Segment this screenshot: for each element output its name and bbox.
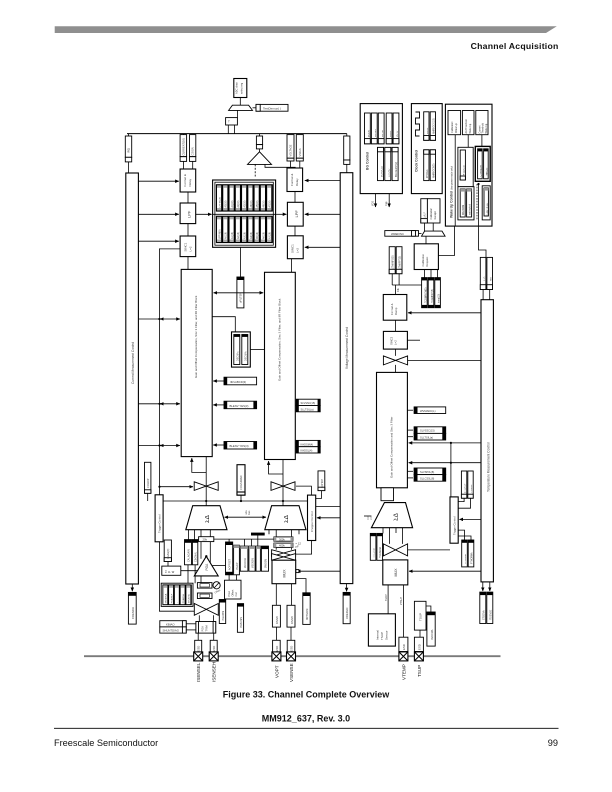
ground rail [84,655,501,657]
pad TSUP [414,652,423,661]
MUX (temperature) [383,560,408,585]
analog rail wire [214,538,274,540]
svg-text:BLENV YES(3): BLENV YES(3) [230,404,249,408]
LTM register pair [389,247,395,274]
wire TSUP to PGAINM [426,606,431,612]
svg-text:VTEMP: VTEMP [402,664,407,680]
mux trapezoid [229,105,253,110]
sigma delta output stubs [382,528,384,534]
svg-text:MPTERM: MPTERM [305,609,309,620]
wake macro box [458,187,474,220]
svg-text:Damp: Damp [394,307,398,315]
temp side registers B [407,470,413,472]
chopper switch (current) [194,482,206,491]
svg-text:CTHRESH: CTHRESH [480,165,482,176]
svg-text:RTZIAG: RTZIAG [426,169,429,178]
calibration receipt box [427,199,440,223]
arrow wires from voltage bar [305,180,340,182]
BG trim register column group [365,113,399,144]
svg-text:Channel Acquisition: Channel Acquisition [471,41,559,51]
svg-text:Σ u. w: Σ u. w [165,570,175,574]
chopper switch (temperature) [383,356,395,365]
long vertical control wire [159,249,194,611]
TSUP register [414,601,426,630]
svg-text:MUX: MUX [394,568,398,577]
RGS resistor [274,543,293,547]
BG calibration register group [378,147,399,180]
LALF register [421,199,428,223]
svg-text:ΣΔ: ΣΔ [205,515,211,523]
svg-text:VTSUP: VTSUP [400,597,403,605]
svg-text:300k: 300k [279,537,285,541]
svg-text:TSUP: TSUP [380,632,384,640]
wires calreq to TCOMP [423,270,425,278]
ETSENA register [480,592,486,623]
svg-text:ADC chan: ADC chan [235,82,239,94]
svg-text:ESD: ESD [418,644,422,650]
gain block 1 output loop [205,457,207,506]
svg-text:A1(16): A1(16) [231,232,234,239]
pad VTEMP [399,652,408,661]
wake compare box left [458,147,473,186]
svg-text:TEMP: TEMP [385,594,388,601]
TSGSEM register pair [370,533,376,560]
VSIGN register [296,135,303,159]
svg-text:PTHORMA: PTHORMA [471,552,474,564]
svg-text:A6(16): A6(16) [262,232,265,239]
PGAINM register [427,612,435,646]
svg-text:CBGNAL: CBGNAL [195,551,198,562]
wires below LTM [391,274,393,285]
svg-text:Gain and Offset Compensation,: Gain and Offset Compensation, Sinc 3 Fil… [194,295,198,378]
SHUNTDIAG register [160,627,186,633]
svg-text:TCMPTB DL: TCMPTB DL [487,202,489,216]
pad VOPT [272,652,281,661]
svg-text:VOLTAGE: VOLTAGE [289,144,293,156]
svg-text:KHDSM(4): KHDSM(4) [301,442,314,446]
ESD ISENSEH [213,633,215,640]
ITSENSE register [487,592,493,623]
ESD VTEMP [399,637,408,651]
gain sum box [162,566,181,575]
svg-text:ESD: ESD [212,646,216,652]
CALAGAIN register [185,540,192,565]
current measurement control bar [126,173,139,584]
svg-text:ESD: ESD [402,644,406,650]
svg-text:ESD: ESD [290,646,294,652]
svg-text:temp(10): temp(10) [438,294,441,303]
wake threshold box right [475,146,490,181]
svg-text:VADCOA: VADCOA [244,558,247,568]
calibration request box [414,244,438,270]
PGA amplifier [194,556,218,576]
svg-text:BGRDC(2): BGRDC(2) [381,166,383,177]
mux outputs [387,585,389,614]
svg-text:VDD: VDD [372,201,375,206]
svg-text:Delay: Delay [188,178,192,186]
wire into switch [160,486,194,488]
svg-text:KHDSL(4): KHDSL(4) [301,449,313,453]
BG Control box [360,104,402,194]
svg-text:A3(16): A3(16) [243,200,246,207]
svg-text:ESD: ESD [197,646,201,652]
STROBE register [240,546,248,571]
svg-text:uFILTER: uFILTER [239,293,243,303]
svg-text:DECIM u: DECIM u [237,351,240,361]
wires at chopper bar [316,506,341,508]
svg-text:MUX: MUX [283,569,287,578]
internal TSUP sensor [368,614,395,646]
wire [294,192,296,203]
trigger control bar (right) [450,497,458,543]
Format and Delay (voltage) [287,168,303,192]
offset cap 2 [197,593,212,599]
svg-text:IRQ: IRQ [126,147,130,153]
svg-text:PGAG(3): PGAG(3) [167,549,170,559]
svg-text:Wake Up: Wake Up [469,123,472,133]
arrow from temperature bar [408,312,481,314]
svg-text:BGSRV: BGSRV [375,129,377,137]
array output wire [240,247,242,277]
svg-text:Cap: Cap [385,201,388,206]
svg-text:44-CDI(13): 44-CDI(13) [463,165,465,177]
wires below CALAGAIN [187,565,189,583]
svg-text:ITCROP: ITCROP [471,484,473,493]
svg-text:STSORM: STSORM [465,554,467,564]
svg-text:Sensor: Sensor [385,630,389,640]
amp offset register [226,542,233,575]
svg-text:Offset: Offset [214,589,221,595]
RVS5 resistor [274,537,293,541]
svg-text:IIRxABCD(3): IIRxABCD(3) [230,380,246,384]
svg-text:LALF: LALF [424,212,427,218]
LPF (current) [180,203,196,224]
SINC1 (current) [180,236,196,257]
svg-text:A5(16): A5(16) [256,232,259,239]
clock waveform [416,112,420,136]
svg-text:L=2: L=2 [296,248,300,253]
step wire to shared block [212,317,235,332]
control lines into gain block [138,403,180,405]
PGA offset cal box [225,580,242,599]
CBGNAU register [192,540,197,565]
TCOMP registers [422,278,428,308]
wire wake to calibration request [438,226,454,255]
COHOP register [145,462,151,493]
ESD VOPT [273,640,281,653]
Wake Up Control box [445,104,492,226]
wires to mux trapezoid [423,223,425,231]
svg-text:DECIM k: DECIM k [245,351,248,361]
DIV20 (VOPT) [272,605,280,627]
wires below switch [198,615,200,621]
sigma delta output stubs (current) [188,530,190,540]
sigma delta modulator (voltage) [265,506,306,530]
svg-text:A2(16): A2(16) [237,200,240,207]
svg-text:DIV/20: DIV/20 [275,616,279,624]
CURRENT register [182,134,184,135]
svg-text:ESD: ESD [275,646,279,652]
wire [291,259,293,273]
exchange arrow wire [214,292,264,294]
svg-text:Gain and Offset Compensation,: Gain and Offset Compensation, Sinc 3 Fil… [278,298,282,381]
svg-text:Internal: Internal [376,630,380,640]
svg-text:LPFIN(16): LPFIN(16) [219,197,221,208]
clock register group B [424,150,436,181]
svg-text:BLENV YDS(3): BLENV YDS(3) [230,444,249,448]
BLENV register [213,404,224,406]
VETN register [259,134,261,136]
bus bar (dark) [251,533,265,536]
svg-text:ETCROP: ETCROP [465,483,467,493]
svg-text:L=2: L=2 [189,246,193,251]
svg-text:PGAIP: PGAIP [236,562,239,570]
wire [187,192,189,203]
junction dots [158,403,160,405]
svg-text:SINC1: SINC1 [184,242,188,251]
clock register group A [424,112,436,141]
wire [187,224,189,236]
svg-text:COGNDREF: COGNDREF [239,475,243,490]
wire [294,226,296,236]
wires [182,161,184,169]
wire [395,349,397,356]
svg-text:Wake Up: Wake Up [485,123,488,133]
svg-text:AMREGCC(13): AMREGCC(13) [433,118,436,134]
svg-text:Trigger Control: Trigger Control [453,516,457,535]
svg-text:PGAIBM: PGAIBM [222,611,225,621]
MPTERM register [303,593,310,625]
input switch (big) [194,604,206,616]
top register box [234,79,247,98]
SINC3 (temperature) [383,331,407,349]
PGA trim box [196,622,216,634]
VSENSE register [256,546,260,571]
wake timer box [482,186,490,220]
DIV20 (VSENSE) [287,605,295,627]
mux right wires [297,570,340,572]
SINC1 (voltage) [287,236,303,259]
WVMADC register [407,409,413,411]
wire wake to divider [479,226,487,257]
svg-text:Voltage Measurement Control: Voltage Measurement Control [345,327,349,369]
voltage block side registers A [296,399,320,405]
IIR enable register [213,444,224,446]
comparator triangle [259,149,261,152]
Format and Delay (current) [180,169,196,192]
svg-text:LPFIN(A): LPFIN(A) [218,229,221,239]
crossbar switches [272,550,284,557]
svg-text:VOPT: VOPT [275,665,280,678]
ETCROP register pair [461,471,466,498]
COGNDREF register [237,465,245,495]
wire [253,107,257,109]
svg-text:WREFINC: WREFINC [391,232,404,236]
svg-text:DIV/20: DIV/20 [290,616,294,624]
arrow wires from control bar [138,180,178,182]
svg-text:ISENSEH: ISENSEH [212,662,217,682]
wires from bar bottom [482,582,484,591]
svg-text:SLLCS5L(8): SLLCS5L(8) [420,477,434,481]
CRENDA register [131,584,133,591]
svg-text:VSENSE: VSENSE [289,663,294,682]
divider resistors [480,257,486,289]
wire to right trigger bar [408,549,450,551]
input switch (temperature) [383,544,395,556]
ESD ISENSEL [197,633,199,640]
shared coefficient block [232,332,251,367]
VOLTAGE register [287,135,294,159]
svg-text:COHOP: COHOP [146,478,150,488]
svg-text:SLLTSIL(a): SLLTSIL(a) [301,407,314,411]
svg-text:Request: Request [425,257,429,267]
top bus [127,133,347,135]
wires to lower registers [458,530,464,540]
PGA input select row [161,583,193,606]
svg-text:TSUP: TSUP [417,665,422,677]
stubs to rail [228,539,230,542]
wires [186,623,196,625]
chopper circle [213,582,220,589]
svg-text:VREFEN: VREFEN [345,608,349,619]
PGBCMN register [237,604,243,633]
wires to bus [227,125,229,134]
svg-text:MGSENA: MGSENA [165,593,168,603]
svg-text:TCOMPATH(5): TCOMPATH(5) [424,287,427,303]
svg-text:BGRF: BGRF [390,130,392,137]
temperature bus wires [409,442,481,444]
svg-text:SLVSP3L(8): SLVSP3L(8) [420,470,434,474]
temperature measurement control bar [481,300,493,582]
svg-text:Calibration: Calibration [430,207,433,219]
bus right drop to voltage control [346,134,348,136]
svg-text:BG Control: BG Control [366,152,370,170]
svg-text:ETSENA: ETSENA [482,610,485,620]
svg-text:TRIM: TRIM [206,625,209,631]
svg-text:RVADMA: RVADMA [431,629,434,640]
svg-text:A7(16): A7(16) [269,232,272,239]
sigma delta modulator (current) [186,506,227,530]
BWOSSM register [261,546,268,571]
svg-text:PGA: PGA [227,591,231,597]
LPF (voltage) [287,202,303,226]
svg-text:Calibration: Calibration [451,121,454,133]
wire to temperature bar [408,359,481,361]
svg-text:PGA: PGA [202,626,205,632]
wire [395,320,397,331]
Clock Control box [411,104,442,194]
chopper bus wire [163,500,307,502]
svg-text:WVMADC(L): WVMADC(L) [420,409,436,413]
svg-text:PGAINLP: PGAINLP [170,593,173,603]
ana bus exchange wire [225,516,267,518]
svg-text:A4(16): A4(16) [250,232,253,239]
svg-text:Calibration: Calibration [421,254,425,267]
ESD TSUP [414,637,423,651]
wires to ESD [275,627,277,640]
svg-text:anti typical: anti typical [469,204,472,215]
svg-text:select reg: select reg [240,82,244,94]
wires trapezoid to resistors [275,547,277,549]
mux output wires [275,584,277,606]
svg-text:SLVSSC(15): SLVSSC(15) [420,429,435,433]
footer rule [54,727,559,729]
svg-text:A2(16): A2(16) [237,232,240,239]
svg-text:Gain and Offset Compensation a: Gain and Offset Compensation and Sinc 3 … [390,417,394,478]
svg-text:Offset: Offset [231,589,235,596]
svg-text:VSENSM: VSENSM [252,558,255,568]
LPF bus through array [196,213,212,215]
svg-text:EOHOP: EOHOP [321,479,324,488]
pad ISENSEL [194,652,203,661]
svg-text:Wake Up: Wake Up [455,123,458,133]
wire [395,365,397,373]
Format and Damp (temperature) [383,295,407,321]
voltage measurement control bar [340,173,353,584]
svg-text:20k: 20k [203,538,208,542]
svg-text:THCSUM: THCSUM [374,548,376,558]
wire [250,349,264,351]
sigma delta output stubs (voltage) [268,530,270,535]
svg-text:Freescale Semiconductor: Freescale Semiconductor [54,738,158,748]
wire into switch from chopper bar [296,486,311,495]
svg-text:SINC1: SINC1 [291,244,295,253]
wires [290,161,292,168]
pad VSENSE [287,652,296,661]
svg-text:MACRAM: MACRAM [462,205,465,215]
small control box [226,118,238,125]
coefficient register array outer [213,180,276,247]
svg-text:PGBCMN: PGBCMN [240,617,243,628]
svg-text:CALAGAIN: CALAGAIN [188,549,191,562]
chopper control bar (right) [308,495,316,540]
svg-text:SHUNTDIAG: SHUNTDIAG [163,629,179,633]
svg-text:LTMAFPT(5): LTMAFPT(5) [399,256,402,269]
svg-text:Format &: Format & [290,174,294,186]
svg-text:Current Measurement Control: Current Measurement Control [131,342,135,384]
gain and offset block (current) [181,269,212,456]
svg-text:CRENDA: CRENDA [131,607,135,619]
svg-text:TCAMPDT(5): TCAMPDT(5) [431,289,434,303]
MUX (voltage) [272,560,296,584]
svg-text:RSOF: RSOF [427,127,429,134]
svg-text:TSGSENA: TSGSENA [379,547,382,558]
svg-text:Wake Up Control (low power mod: Wake Up Control (low power mode only) [450,166,454,218]
CSIGN register [190,135,196,157]
svg-text:BWOSM: BWOSM [264,559,267,568]
svg-text:BGTRI: BGTRI [382,130,384,137]
wires to bar [482,290,484,300]
svg-text:TSUP: TSUP [419,613,423,621]
wires to PGA offset cal [228,575,230,580]
IIRxABCD register [213,380,224,382]
test demux register box [256,104,288,111]
trigger control bar (left) [155,495,163,542]
svg-text:Receipt: Receipt [434,211,437,219]
gain block 3 output connector [381,488,394,501]
svg-text:VSIGN: VSIGN [298,148,302,156]
svg-text:A4(16): A4(16) [250,200,253,207]
svg-text:LTMANFG(5): LTMANFG(5) [392,255,395,269]
svg-text:pF: pF [296,545,300,549]
PGAIP register [234,545,240,575]
reference mux trapezoid [422,231,446,236]
svg-text:Trigger Control: Trigger Control [158,514,162,533]
IRQ box [128,134,130,136]
svg-text:Format &: Format & [183,174,187,186]
pad ISENSEH [209,652,218,661]
center uFilter register [237,277,244,308]
